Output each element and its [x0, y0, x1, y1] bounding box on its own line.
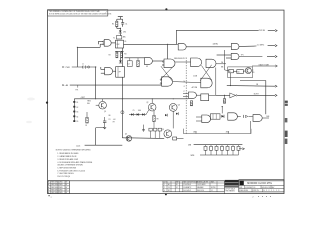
diode CR2	[119, 60, 122, 63]
wire Q2 up to rail	[151, 99, 153, 104]
wire vertical to input junction	[76, 47, 78, 67]
components above U7: resistor R2	[116, 52, 118, 58]
bottom border zone tick	[165, 193, 167, 195]
capacitor C2 block	[127, 61, 132, 67]
svg-text:D2: D2	[176, 187, 178, 189]
svg-text:210B: 210B	[193, 75, 197, 77]
wire Q2 to R9	[153, 111, 155, 115]
svg-text:1000: 1000	[138, 110, 141, 112]
capacitor C3	[103, 120, 106, 122]
wire input PWR	[72, 66, 96, 68]
svg-text:QTY: QTY	[164, 182, 167, 184]
svg-text:R7: R7	[113, 121, 115, 123]
wire U5 inputs	[226, 54, 231, 56]
bus bar U shape	[184, 129, 252, 134]
diode CR9	[165, 114, 167, 116]
svg-text:170-4216-01: 170-4216-01	[183, 184, 191, 186]
wire Q3 down	[167, 137, 169, 140]
top border zone tick	[165, 8, 167, 10]
wire Q1 collector up	[102, 99, 104, 102]
rail wire y=98.8	[74, 98, 188, 100]
svg-text:TP6: TP6	[252, 72, 255, 74]
pad 5	[73, 120, 75, 122]
wire output PB y=85.6	[227, 85, 275, 88]
crystal Y1 label block	[119, 33, 121, 35]
wire busy out	[237, 94, 275, 96]
wire U8 out to latch	[152, 60, 164, 62]
gate-time cluster outline box	[228, 67, 253, 78]
divider dashed vertical	[185, 58, 187, 136]
oscillator gate U2 with input bubbles	[104, 40, 111, 47]
comb arrow right	[242, 148, 244, 150]
resistor R4	[137, 60, 139, 66]
diode CR6	[221, 115, 224, 118]
wire top loop y=30.3	[176, 29, 258, 31]
comb resistor 5	[227, 145, 229, 147]
svg-text:CODE IDENT NO: CODE IDENT NO	[245, 187, 255, 189]
title block row line 1	[239, 184, 284, 186]
svg-text:J1: J1	[82, 64, 84, 66]
wire U6 out	[113, 70, 116, 72]
latch gate U10B	[201, 78, 212, 88]
comb resistor 1	[205, 145, 207, 147]
svg-text:BY: BY	[66, 182, 68, 184]
resistor R11	[237, 70, 244, 74]
svg-text:(437B): (437B)	[213, 44, 219, 46]
svg-text:S4: S4	[76, 116, 78, 118]
transistor Q5 on bottom run	[126, 136, 132, 142]
svg-text:+5: +5	[252, 69, 254, 71]
svg-text:→7: →7	[105, 11, 108, 13]
wire U3 out to U4	[186, 46, 231, 48]
svg-text:REV DESC: REV DESC	[51, 189, 58, 191]
svg-text:CHKD: CHKD	[59, 187, 63, 189]
svg-text:MB: MB	[221, 66, 223, 68]
svg-text:R6: R6	[109, 115, 111, 117]
input stub PWR arrow	[62, 66, 64, 68]
inverter U11	[230, 93, 236, 98]
component box U15	[210, 114, 220, 119]
wire into U14	[196, 116, 202, 118]
wire to diode	[116, 27, 118, 29]
svg-text:C1: C1	[125, 24, 127, 26]
wire vertical right x=265.8	[265, 81, 267, 115]
wire busy y=95.3	[216, 94, 230, 96]
resistor R5	[86, 117, 88, 123]
gate U14	[202, 115, 211, 123]
svg-text:S1: S1	[76, 102, 78, 104]
right margin zone marks	[285, 101, 288, 103]
gate U6 nand	[105, 68, 113, 75]
capacitor C1	[121, 22, 124, 24]
wire J bottom	[85, 144, 123, 146]
svg-text:REV DESC: REV DESC	[51, 192, 58, 194]
wire TP output	[239, 56, 262, 58]
svg-text:CC: CC	[211, 190, 213, 192]
transistor Q6	[169, 104, 177, 112]
svg-text:CONT ON: CONT ON	[253, 190, 259, 192]
wire bottom run y=137.8	[122, 137, 164, 140]
wire R5 up	[86, 112, 88, 117]
svg-text:REV DESC: REV DESC	[51, 187, 58, 189]
svg-text:BY: BY	[66, 192, 68, 194]
title block row2 cells	[243, 185, 245, 188]
wire loop y=80.5	[240, 80, 266, 82]
wire Q6 up	[172, 99, 174, 104]
wires gate-time cluster	[225, 70, 229, 71]
comb resistor 4	[221, 145, 223, 147]
svg-text:1K: 1K	[229, 71, 231, 73]
oscillator module U1 box	[116, 40, 124, 48]
svg-text:UNLESS OTHERWISE SHOWN: UNLESS OTHERWISE SHOWN	[57, 165, 83, 167]
notice box	[48, 10, 108, 16]
wire gate time output	[252, 65, 275, 67]
diode CR7 CR8 pair	[241, 115, 243, 117]
svg-text:2. CAPACITANCE IN UF: 2. CAPACITANCE IN UF	[57, 155, 76, 158]
wire vertical x=95.7 down	[95, 67, 97, 99]
wire 4MHZ output	[239, 45, 256, 47]
transistor Q1	[99, 101, 107, 109]
svg-text:901-1042-07: 901-1042-07	[183, 190, 191, 192]
svg-text:R3: R3	[124, 53, 126, 55]
svg-text:A TOM: A TOM	[192, 86, 198, 89]
svg-text:P: P	[184, 91, 185, 93]
wire vertical into latch top	[167, 44, 169, 59]
title strip top line	[48, 180, 284, 182]
gate U4 top right	[231, 43, 239, 49]
wire CR6 tick up	[221, 106, 223, 113]
feedback wire left of osc gate	[100, 43, 103, 45]
osc gate top input wire	[99, 40, 104, 42]
resistor R10	[229, 69, 234, 72]
pad 1	[73, 101, 75, 103]
svg-text:7. LAST REF DESIG: 7. LAST REF DESIG	[57, 172, 74, 175]
svg-text:REV DESC: REV DESC	[51, 184, 58, 186]
svg-text:Y1: Y1	[113, 37, 115, 39]
svg-text:C2: C2	[128, 64, 130, 66]
gate U16	[228, 113, 238, 120]
svg-text:S5: S5	[76, 121, 78, 123]
svg-text:NIXDORF CLOCK MTG: NIXDORF CLOCK MTG	[247, 183, 272, 185]
parts table	[163, 181, 224, 192]
bus tick 2	[228, 131, 230, 134]
+5V power bar	[118, 16, 123, 18]
wire output 14B	[262, 117, 269, 119]
svg-text:R2: R2	[168, 190, 170, 192]
wire U12 U13	[196, 94, 200, 96]
svg-text:B1: B1	[176, 184, 178, 186]
gate U17	[253, 115, 262, 122]
svg-text:R2: R2	[109, 55, 111, 57]
svg-text:S3: S3	[76, 112, 78, 114]
resistor R12 below busy	[223, 99, 225, 104]
svg-text:PWR: PWR	[66, 67, 71, 69]
wire down x=224.5	[224, 50, 226, 70]
svg-text:RES 1K 5%: RES 1K 5%	[197, 190, 205, 192]
wire tops R2 R3	[115, 51, 124, 53]
pad 3	[73, 111, 75, 113]
svg-text:C3: C3	[108, 119, 110, 121]
svg-text:CR1: CR1	[123, 32, 126, 34]
svg-text:BY: BY	[66, 189, 68, 191]
wire U16 out	[237, 116, 240, 118]
gate U12 busy source	[188, 92, 196, 98]
left border zone tick	[46, 102, 48, 104]
svg-text:J1-16: J1-16	[76, 145, 80, 147]
svg-text:BY: BY	[66, 184, 68, 186]
wire Q1 base	[95, 99, 97, 105]
title block logo square	[240, 180, 244, 185]
svg-text:BUSY: BUSY	[254, 94, 260, 96]
transistor Q2	[148, 103, 156, 111]
svg-text:Q6: Q6	[178, 104, 180, 106]
comb resistor 6	[232, 145, 234, 147]
resistor R13	[190, 101, 192, 106]
company block dark print	[225, 180, 239, 183]
wire U12 inputs	[183, 93, 188, 95]
svg-text:Q1: Q1	[104, 111, 106, 113]
wire gate output to osc box	[111, 42, 115, 44]
diode CR10	[176, 113, 178, 115]
svg-text:5. REF DESIG SHOWN: 5. REF DESIG SHOWN	[57, 168, 76, 170]
resistor R9	[153, 115, 155, 121]
wire Q6 down to bus	[172, 111, 174, 128]
gate U3 on 4MHZ run	[178, 44, 186, 50]
svg-text:BY: BY	[66, 187, 68, 189]
svg-text:CHKD: CHKD	[59, 189, 63, 191]
wire vertical latch2 down to busy	[215, 68, 217, 96]
svg-text:PW 8B: PW 8B	[259, 30, 266, 32]
comb resistor 7	[238, 145, 240, 147]
comb resistor 2	[210, 145, 212, 147]
resistor R1	[116, 21, 118, 27]
svg-text:CHKD: CHKD	[59, 192, 63, 194]
svg-text:TP1: TP1	[75, 90, 78, 92]
revision stamp block	[48, 181, 70, 194]
svg-text:Q2: Q2	[146, 102, 148, 104]
svg-text:220: 220	[237, 71, 240, 73]
input stub AB arrow	[62, 84, 64, 86]
pad rail vertical x=74.3	[73, 99, 75, 122]
wire diode chain up to Q2	[146, 110, 149, 115]
IC U7 box	[116, 67, 125, 78]
latch gate U10A	[191, 58, 202, 67]
wire y=57.8 to gate U8	[124, 57, 144, 59]
IC U13 box	[201, 94, 209, 101]
svg-text:REV: REV	[272, 187, 275, 189]
output PW 8B arrow	[268, 29, 275, 31]
connector circle	[121, 111, 124, 114]
cross coupling wires latch1	[161, 65, 175, 80]
resistor row boxes	[149, 128, 152, 131]
svg-text:NOTED: NOTED	[211, 187, 216, 189]
ground mid	[143, 128, 145, 130]
svg-text:5B: 5B	[256, 84, 258, 86]
svg-text:3. RESISTORS ARE 1/4W: 3. RESISTORS ARE 1/4W	[57, 158, 78, 161]
pad 2	[73, 106, 75, 108]
svg-text:6. FOR ASSY USE DWG 170-4216: 6. FOR ASSY USE DWG 170-4216	[57, 169, 84, 172]
ground below C3	[104, 122, 106, 125]
comb resistor 3	[216, 145, 218, 147]
svg-text:N 2 2 1 1 1 3: N 2 2 1 1 1 3	[263, 190, 279, 192]
gate U5 TP output	[231, 53, 239, 59]
latch gate U9B	[162, 77, 173, 86]
svg-text:NOTES: UNLESS OTHERWISE SPECIF: NOTES: UNLESS OTHERWISE SPECIFIED	[56, 149, 92, 151]
svg-text:4. DIODES ARE IN914 AND TRANS: 4. DIODES ARE IN914 AND TRANS 2N3904	[57, 161, 92, 164]
svg-text:Q3: Q3	[162, 129, 164, 131]
connector J1 symbol	[82, 66, 85, 69]
svg-text:+5V: +5V	[113, 119, 116, 121]
sheet border frame	[48, 10, 284, 194]
wire to U17	[248, 115, 252, 117]
title block row3 cells	[251, 189, 253, 192]
svg-text:CHKD: CHKD	[59, 184, 63, 186]
svg-text:DWG NO 4216: DWG NO 4216	[262, 187, 271, 189]
wire R9 down	[153, 122, 155, 129]
svg-text:R14 C9 CR8 Q6: R14 C9 CR8 Q6	[57, 176, 70, 178]
diode CR1	[119, 30, 122, 33]
svg-text:C4: C4	[168, 187, 170, 189]
transistor Q3 big	[164, 130, 172, 138]
wire between latches	[175, 61, 191, 63]
left margin smudge	[27, 98, 35, 101]
wire osc top split	[117, 18, 123, 20]
resistor R3	[121, 52, 123, 58]
svg-text:S2: S2	[76, 107, 78, 109]
svg-text:Q5: Q5	[125, 134, 127, 136]
svg-text:REV DESC: REV DESC	[51, 182, 58, 184]
bus tick 1	[195, 131, 197, 134]
gate U8	[144, 58, 152, 65]
diode chain CR3 CR4 CR5	[129, 114, 146, 116]
svg-text:R1: R1	[112, 24, 114, 26]
resistor R8 right of Q3	[173, 137, 177, 140]
latch gate U9A	[164, 59, 175, 68]
svg-text:U1: U1	[124, 41, 126, 43]
svg-text:REF: REF	[176, 182, 179, 184]
svg-text:SGL: SGL	[87, 103, 90, 105]
svg-text:FF: FF	[119, 71, 121, 73]
wire U6 inputs	[101, 68, 105, 70]
svg-text:U8: U8	[146, 66, 148, 68]
svg-text:C5: C5	[133, 110, 135, 112]
gate U10C	[206, 59, 216, 67]
svg-text:CHKD: CHKD	[59, 182, 63, 184]
title block row line 2	[239, 188, 284, 190]
svg-text:SIZE: SIZE	[239, 187, 242, 189]
wire vert from U16 down	[250, 121, 252, 134]
wire main vertical x=122.3	[121, 48, 123, 67]
wire latch2 to gate time	[216, 63, 226, 65]
wire osc output long run y=44.3	[124, 43, 178, 45]
svg-text:1K: 1K	[85, 125, 87, 127]
svg-text:2: 2	[51, 197, 52, 199]
cross coupling wires latch2	[200, 65, 211, 81]
svg-text:R9: R9	[157, 118, 159, 120]
svg-text:MDL9602-2C: MDL9602-2C	[174, 58, 186, 60]
wire input AB long	[70, 84, 162, 86]
wires resistor row down	[150, 131, 152, 138]
title block outline	[239, 180, 284, 192]
wire G2 output to G4	[173, 82, 201, 83]
svg-text:NOT BE REPRODUCED OR USED WITH: NOT BE REPRODUCED OR USED WITHOUT THE WR…	[49, 13, 111, 15]
transistor Q4	[245, 68, 251, 74]
wire R8 to bus	[177, 138, 184, 140]
svg-text:4.0 MHZ: 4.0 MHZ	[257, 44, 265, 46]
wire J loop vertical x=95.7 low	[95, 110, 97, 128]
svg-text:1. RESISTANCE IN OHMS: 1. RESISTANCE IN OHMS	[57, 152, 79, 155]
pad 4	[73, 115, 75, 117]
fold marks bottom left	[48, 195, 49, 196]
svg-text:TP5: TP5	[241, 55, 244, 57]
